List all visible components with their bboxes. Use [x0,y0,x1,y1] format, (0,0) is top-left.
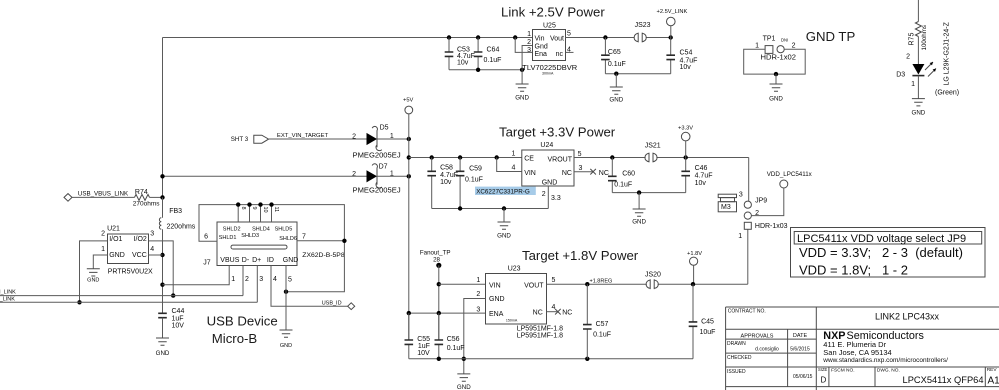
node junction C59 bottom [458,206,462,210]
svg-text:10V: 10V [417,350,430,357]
wire U25 ena tap [515,38,532,53]
wire 3.3V input rail [409,157,522,159]
op-amp U24 XC6227C331PR-G [475,142,583,202]
svg-text:11: 11 [273,207,279,213]
svg-text:USB Device: USB Device [207,314,278,329]
svg-text:GND: GND [515,95,529,102]
power +3.3V [678,126,693,158]
svg-text:2: 2 [542,191,546,198]
wire J7 vbus pin1 [163,266,230,285]
svg-text:VCC: VCC [132,252,147,259]
wire DP_LINK [0,301,257,303]
capacitor C59 [456,158,483,209]
svg-text:C57: C57 [596,321,609,328]
node junction gnd bus [520,68,524,72]
wire D7 anode from USB rail [163,175,367,177]
wire U23 gnd pin2 [464,299,486,374]
svg-text:GND: GND [156,350,170,357]
svg-text:XC6227C331PR-G: XC6227C331PR-G [476,188,530,195]
jumper JS21 [645,143,661,163]
svg-text:DRAWN: DRAWN [727,341,746,347]
capacitor C57 [583,284,611,359]
wire C53 C64 bottom bus [449,69,522,71]
svg-text:4.7uF: 4.7uF [695,173,713,180]
node junction D7 left [160,174,164,178]
svg-text:C60: C60 [622,170,635,177]
svg-text:VBUS: VBUS [220,257,239,264]
wire U24 nc stub with X [574,169,609,177]
svg-text:10v: 10v [695,180,707,187]
capacitor C64 [474,38,502,70]
svg-text:C45: C45 [701,319,714,326]
wire TP1 gnd stem [775,74,777,84]
svg-text:FSCM NO.: FSCM NO. [831,367,854,373]
svg-text:05/06/15: 05/06/15 [793,374,813,380]
node junction pin7 bus [342,239,346,243]
svg-text:3: 3 [739,191,743,198]
svg-text:APPROVALS: APPROVALS [741,333,774,339]
svg-text:+5V: +5V [403,98,413,104]
power +1.8V [687,251,702,284]
svg-text:DM_LINK: DM_LINK [0,290,16,296]
op-amp U25 TLV70225DBVR [522,23,577,76]
svg-text:PMEG2005EJ: PMEG2005EJ [353,151,401,160]
svg-text:10v: 10v [440,179,452,186]
svg-text:1: 1 [101,246,105,253]
svg-text:2: 2 [352,134,356,141]
svg-text:5: 5 [288,277,292,284]
wire U21 gnd [93,255,107,269]
wire R75 to LED [917,37,919,65]
svg-text:+1.8REG: +1.8REG [590,279,613,285]
svg-text:GND: GND [542,180,558,187]
svg-text:2: 2 [101,230,105,237]
svg-text:1: 1 [911,81,915,88]
ground TP1 [769,84,783,102]
node junction VBUS tap [160,283,164,287]
svg-text:8: 8 [240,207,246,210]
svg-text:4: 4 [150,246,154,253]
op-amp U23 LP5951MF [476,265,563,339]
wire J7 shield top leads [238,205,271,222]
svg-text:150mA: 150mA [506,319,518,323]
svg-text:Micro-B: Micro-B [212,331,258,346]
ground U23 [457,374,471,390]
svg-text:NC: NC [562,170,572,177]
svg-text:USB_VBUS_LINK: USB_VBUS_LINK [78,190,129,197]
node junction gnd tap C60 [637,190,641,194]
svg-text:2: 2 [906,53,910,60]
svg-text:+1.8V: +1.8V [687,251,702,257]
svg-text:1: 1 [511,150,515,157]
wire U25 gnd down [522,46,532,85]
svg-text:JS20: JS20 [645,272,661,279]
connector JP9 HDR-1x03 [738,191,787,240]
svg-text:FB3: FB3 [169,208,182,215]
svg-text:C55: C55 [417,336,430,343]
svg-text:ID: ID [267,257,274,264]
svg-text:SIZE: SIZE [818,367,828,372]
svg-text:Ena: Ena [535,51,548,58]
node SHT3 off-page flag [231,133,329,143]
svg-text:C65: C65 [608,49,621,56]
svg-text:7: 7 [302,233,306,240]
wire EXT_VIN_TARGET to D5 [269,138,367,140]
svg-text:VDD_LPC5411x: VDD_LPC5411x [767,171,813,178]
node junction ena fanout [437,311,441,315]
wire U24 pin2 stem [547,186,549,209]
svg-text:2: 2 [527,39,531,46]
svg-text:JS21: JS21 [645,143,661,150]
capacitor C45 [689,284,716,359]
svg-text:DWG. NO.: DWG. NO. [877,367,900,373]
svg-text:A1: A1 [988,375,999,386]
pin numbers 8 9 10 11 rotated [240,207,279,213]
svg-text:U23: U23 [508,265,521,272]
svg-text:GND: GND [280,343,292,349]
svg-text:GND: GND [497,233,511,240]
svg-text:5/6/2015: 5/6/2015 [790,347,810,353]
svg-text:D3: D3 [896,72,905,79]
resistor R75 [909,22,929,51]
power +2.5V_LINK [657,9,688,38]
wire 3.3V bottom bus [432,208,549,210]
wire U25 nc stub [566,51,574,53]
svg-text:JS23: JS23 [635,22,651,29]
svg-text:VIN: VIN [524,170,536,177]
node junction io1 dp [77,300,81,304]
svg-text:1: 1 [476,277,480,284]
node junction shield lead 8 [236,202,240,206]
svg-text:www.standardics.nxp.com/microc: www.standardics.nxp.com/microcontrollers… [822,357,948,364]
node junction C46 top [684,155,688,159]
svg-text:5: 5 [552,277,556,284]
svg-text:DATE: DATE [793,333,808,339]
svg-text:10: 10 [262,207,268,213]
ground U25 [515,84,529,102]
svg-text:HDR-1x02: HDR-1x02 [761,53,796,62]
svg-text:4: 4 [273,276,277,283]
svg-text:GND: GND [283,257,299,264]
wire gnd stem C60 [638,193,640,209]
node junction R74 rail [160,195,164,199]
svg-text:GND: GND [912,110,926,117]
capacitor C46 [681,158,712,193]
wire U24 vrout [574,157,749,159]
wire D7 cathode to rail [377,175,409,177]
wire gnd stem 3.3 [503,209,505,223]
connector J7 ZX62D-B-5P8 [203,222,345,267]
svg-text:D-: D- [242,257,250,264]
svg-text:ZX62D-B-5P8: ZX62D-B-5P8 [302,252,345,259]
op-amp U21 PRTR5V0U2X [101,226,154,276]
svg-text:0.1uF: 0.1uF [465,176,483,183]
svg-text:1: 1 [527,31,531,38]
node junction D5 rail [407,137,411,141]
node junction TP1 gnd [774,72,778,76]
wire J7 dminus pin2 [242,266,244,296]
svg-text:0.1uF: 0.1uF [484,57,502,64]
ground U24 [497,222,511,240]
svg-text:I/O2: I/O2 [134,236,147,243]
wire top VBUS rail horizontal [163,37,533,39]
capacitor C53 [445,38,475,70]
svg-text:GND TP: GND TP [806,29,856,44]
svg-text:JP9: JP9 [755,198,767,205]
svg-text:0.1uF: 0.1uF [614,182,632,189]
svg-text:5: 5 [578,151,582,158]
wire U25 vout [566,37,671,39]
svg-text:CONTRACT NO.: CONTRACT NO. [728,309,766,315]
svg-text:D+: D+ [252,257,261,264]
node junction C56 bottom [437,357,441,361]
diode D7 PMEG2005EJ [352,164,401,195]
title block texts right [818,312,999,387]
wire J7 shield bus [199,205,344,292]
wire U24 vin drop [497,158,522,172]
svg-text:1: 1 [231,276,235,283]
power +5V [403,98,413,114]
svg-text:3: 3 [579,165,583,172]
svg-text:REV: REV [987,367,998,373]
svg-text:10uF: 10uF [700,329,716,336]
svg-text:NC: NC [599,170,609,177]
svg-text:(Green): (Green) [935,90,959,97]
svg-text:GND: GND [489,296,505,303]
svg-text:LP5951MF-1.8: LP5951MF-1.8 [517,333,563,340]
node junction C65 top [603,35,607,39]
svg-text:LPC5411x VDD voltage select JP: LPC5411x VDD voltage select JP9 [797,233,966,245]
wire gnd stem [615,74,617,87]
wire JP9 pin3 drop [748,158,750,202]
svg-text:9: 9 [251,207,257,210]
capacitor C60 [608,158,635,193]
node junction shield lead 10 [258,202,262,206]
svg-text:GND: GND [632,219,646,226]
node USB_VBUS_LINK off-page [64,190,129,201]
node Fanout_TP test point [420,250,451,268]
svg-text:GND: GND [769,95,783,102]
svg-text:HDR-1x03: HDR-1x03 [755,223,788,230]
svg-text:d.consiglio: d.consiglio [755,347,779,353]
node junction gnd tap [614,72,618,76]
wire 1.8V bottom bus [409,358,693,360]
svg-text:10v: 10v [457,60,469,67]
svg-text:10V: 10V [172,322,185,329]
svg-text:4: 4 [552,304,556,311]
svg-text:D7: D7 [379,164,388,171]
capacitor C44 [158,308,184,338]
wire JP9 pin1 drop [747,229,749,284]
wire TP1 loop [744,49,806,74]
title block texts left [727,309,813,381]
node junction U23 vin tap [437,282,441,286]
svg-text:3.3: 3.3 [551,195,561,202]
svg-text:U21: U21 [107,226,120,233]
svg-text:2: 2 [792,42,796,49]
wire U23 ena [409,312,486,314]
node junction C53 top [447,35,451,39]
wire R74 to rail [150,196,163,198]
wire J7 pin7 [297,240,344,242]
svg-text:VIN: VIN [489,282,501,289]
svg-text:4: 4 [511,164,515,171]
svg-text:R75: R75 [909,33,916,46]
inductor FB3 ferrite bead [159,197,195,313]
svg-text:VDD = 1.8V; 1 - 2: VDD = 1.8V; 1 - 2 [799,263,908,278]
svg-text:NC: NC [562,309,572,316]
svg-text:100ohms: 100ohms [921,25,928,50]
wire +5V rail vertical [408,114,410,340]
svg-text:NC: NC [533,309,543,316]
node junction Ena tap [513,35,517,39]
node junction shield lead 9 [247,202,251,206]
svg-text:3: 3 [259,276,263,283]
svg-text:0.1uF: 0.1uF [593,331,611,338]
svg-text:M3: M3 [721,204,731,211]
svg-text:220ohms: 220ohms [167,223,196,230]
node junction ena rail [407,311,411,315]
svg-text:U25: U25 [543,23,556,30]
wire top VBUS rail vertical [162,38,164,198]
svg-text:nc: nc [556,51,564,58]
node junction shield gnd [284,290,288,294]
svg-text:USB_ID: USB_ID [322,301,342,307]
svg-text:3: 3 [150,230,154,237]
svg-text:0.1uF: 0.1uF [608,61,626,68]
svg-text:SHLD2: SHLD2 [223,226,241,232]
capacitor C56 [435,313,465,359]
svg-text:3: 3 [476,306,480,313]
node junction C59 top [458,155,462,159]
svg-text:VROUT: VROUT [548,156,573,163]
wire LED to gnd [917,76,919,99]
node junction D7 rail [407,174,411,178]
capacitor C65 [601,38,626,74]
svg-text:SHLD6: SHLD6 [279,236,297,242]
svg-text:ENA: ENA [489,311,504,318]
wire C60 C46 bottom bus [612,192,685,194]
connector TP1 HDR-1x02 [755,35,796,61]
svg-text:C64: C64 [487,46,500,53]
node junction +1.8V tap [691,282,695,286]
node junction C54 top [669,35,673,39]
svg-text:CE: CE [524,155,534,162]
svg-text:LINK2 LPC43xx: LINK2 LPC43xx [875,312,940,322]
wire U23 vin [439,283,486,285]
svg-text:I/O1: I/O1 [109,236,122,243]
ground C44 [156,338,170,357]
svg-text:D: D [821,376,827,385]
svg-text:ISSUED: ISSUED [727,369,746,375]
wire J7 dplus pin3 [256,266,258,303]
node junction C57 bottom [585,357,589,361]
svg-text:DP_LINK: DP_LINK [0,297,15,303]
node junction io2 dm [171,293,175,297]
svg-text:VDD = 3.3V; 2 - 3 (default): VDD = 3.3V; 2 - 3 (default) [799,245,963,260]
svg-text:2: 2 [352,171,356,178]
wire U21 vcc [149,254,163,256]
svg-text:D5: D5 [380,125,389,132]
node USB_ID off-page [322,301,355,310]
svg-text:0.1uF: 0.1uF [447,345,465,352]
ground C65 [609,87,623,104]
svg-text:C59: C59 [469,165,482,172]
svg-text:10v: 10v [680,64,692,71]
title block frame [726,307,999,390]
svg-text:Target +3.3V Power: Target +3.3V Power [499,125,616,140]
svg-text:GND: GND [109,252,125,259]
resistor R74 [133,189,160,208]
diode D5 PMEG2005EJ [352,125,401,160]
svg-text:SHLD3: SHLD3 [241,233,259,239]
node junction shield lead 11 [269,202,273,206]
svg-text:San Jose, CA 95134: San Jose, CA 95134 [823,348,891,357]
node junction gnd bus 1.8 [462,357,466,361]
svg-text:GND: GND [609,97,623,104]
svg-text:4.7uF: 4.7uF [440,172,458,179]
capacitor C54 [666,38,697,74]
svg-text:C54: C54 [680,50,693,57]
node junction gnd tap 3.3 [502,206,506,210]
ground J7 [280,330,293,349]
svg-text:1: 1 [738,233,742,240]
node junction C58 top [430,155,434,159]
wire VBUS to R74 [72,196,135,198]
svg-text:+3.3V: +3.3V [678,126,693,132]
svg-text:Link +2.5V Power: Link +2.5V Power [501,5,605,20]
svg-text:Vin: Vin [535,36,545,43]
svg-text:+2.5V_LINK: +2.5V_LINK [657,9,688,15]
svg-text:C58: C58 [440,165,453,172]
jumper JS20 [645,272,661,290]
node junction VIN tap [495,155,499,159]
svg-text:PMEG2005EJ: PMEG2005EJ [353,186,401,195]
svg-text:2: 2 [245,276,249,283]
svg-text:Vout: Vout [550,36,564,43]
capacitor C55 [405,313,431,359]
svg-text:SHLD1: SHLD1 [219,235,237,241]
callout box LPC5411x VDD voltage select [791,228,986,278]
jumper JS23 [634,22,651,42]
jumper shunt M3 [718,194,736,212]
svg-text:PRTR5V0U2X: PRTR5V0U2X [108,269,153,276]
node junction C64 top [476,35,480,39]
svg-text:6: 6 [204,234,208,241]
wire U21 io1 [80,241,108,302]
svg-text:J7: J7 [203,260,211,267]
wire C65 C54 bottom bus [605,73,670,75]
wire J7 gnd pin5 [285,266,287,331]
svg-text:CHECKED: CHECKED [727,355,752,361]
capacitor C58 [427,158,458,209]
svg-text:3: 3 [527,47,531,54]
wire DM_LINK [0,295,243,297]
ground U21 [87,269,100,284]
ground C60 [632,209,646,226]
svg-text:TP1: TP1 [763,35,776,42]
svg-text:SHT 3: SHT 3 [231,136,249,143]
wire U23 vout [547,283,748,285]
svg-text:C44: C44 [172,308,185,315]
svg-text:5: 5 [567,31,571,38]
svg-text:GND: GND [457,384,471,390]
power VDD_LPC5411x circle [780,180,788,188]
svg-text:SHLD5: SHLD5 [275,226,293,232]
svg-text:Target +1.8V Power: Target +1.8V Power [522,248,639,263]
svg-text:1: 1 [755,42,759,49]
svg-text:SHLD4: SHLD4 [252,226,270,232]
